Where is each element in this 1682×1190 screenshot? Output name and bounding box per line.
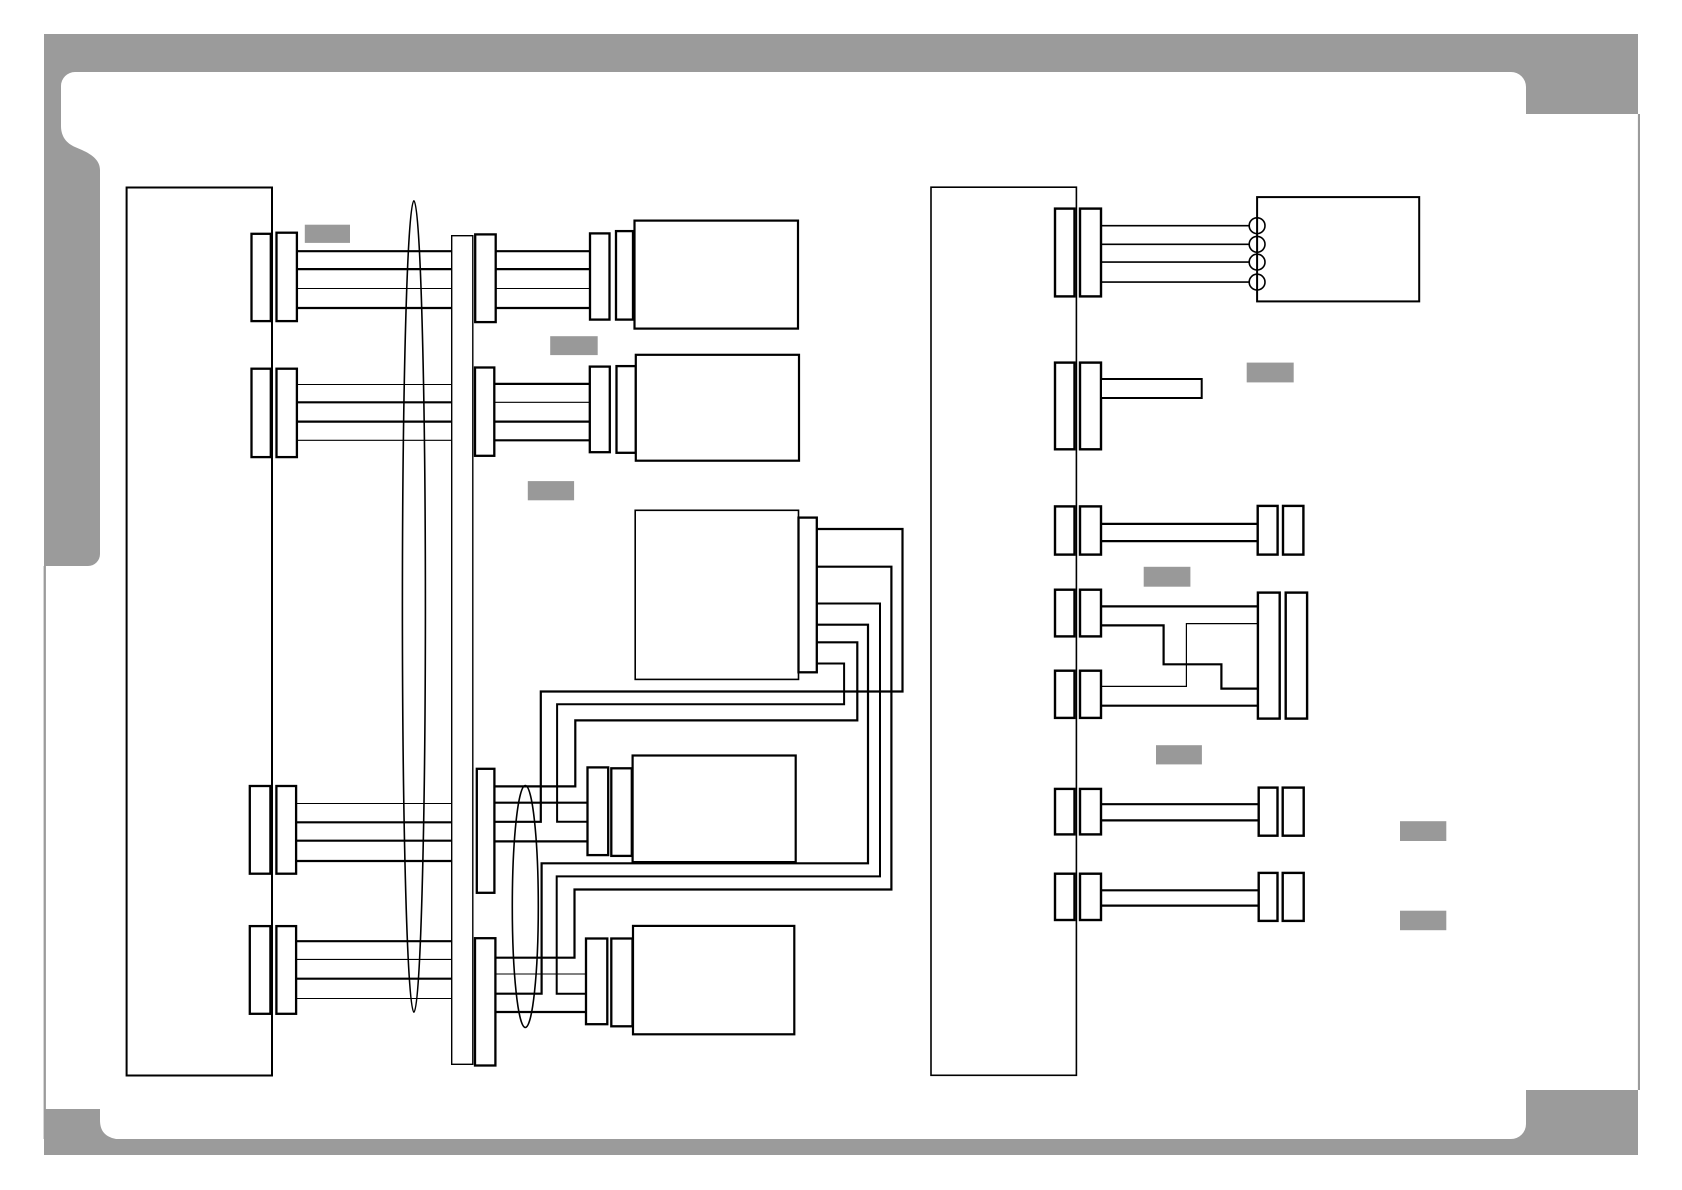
wire Q5-1 staircase up bbox=[1098, 624, 1260, 687]
connector F6 left bbox=[1259, 788, 1278, 836]
connector E3 outer bbox=[1080, 506, 1101, 554]
pin circle Q1-3 bbox=[1249, 254, 1265, 270]
wire P2-4 right bbox=[492, 439, 592, 441]
wire bus to M1 conn pin1 bbox=[492, 802, 589, 804]
wire P3-4 left bbox=[294, 860, 455, 862]
connector F45 left bbox=[1258, 593, 1280, 719]
frame top bar bbox=[44, 34, 1638, 72]
wire P2-1 left bbox=[294, 384, 455, 386]
junction bus bar bbox=[452, 236, 473, 1065]
connector M1 outer bbox=[588, 767, 609, 855]
wire bus to M2 conn pin3 bbox=[493, 1011, 589, 1013]
cable loop ellipse 2 bbox=[512, 786, 538, 1028]
wire P1-3 right bbox=[492, 288, 592, 290]
device box B2 bbox=[636, 355, 799, 461]
wire Q6-2 bbox=[1098, 819, 1260, 821]
connector F45 right bbox=[1286, 593, 1307, 719]
wire Q4-1 bbox=[1098, 605, 1260, 607]
device box B1 bbox=[635, 221, 799, 329]
connector F7 left bbox=[1259, 873, 1278, 921]
frame left thin line bbox=[44, 566, 46, 1139]
wire P1-2 right bbox=[492, 268, 592, 270]
label L5 bbox=[1144, 567, 1191, 587]
bus connector C2 bbox=[475, 368, 494, 456]
wire P3-1 left bbox=[294, 803, 455, 805]
bus connector C4 bbox=[477, 769, 495, 893]
pin circle Q1-1 bbox=[1249, 218, 1265, 234]
wire Q7-2 bbox=[1098, 904, 1260, 906]
wire P1-1 right bbox=[492, 250, 592, 252]
wire Q4-2 staircase down bbox=[1098, 625, 1260, 688]
motor box B5 bbox=[633, 926, 794, 1034]
connector F3 left bbox=[1258, 506, 1278, 555]
connector D1 inner bbox=[616, 231, 633, 320]
frame bottom-right block bbox=[1511, 1090, 1638, 1139]
wire P2-4 left bbox=[294, 439, 455, 441]
wire P1-1 left bbox=[294, 250, 455, 252]
wire P4-4 left bbox=[294, 998, 455, 1000]
wire W1 deck conn to bus bbox=[492, 529, 903, 822]
label L4 bbox=[1247, 363, 1294, 383]
wire P2-2 right bbox=[492, 401, 592, 403]
wire Q3-1 bbox=[1098, 523, 1260, 525]
wire P4-3 left bbox=[294, 978, 455, 980]
main PCB box left bbox=[127, 188, 272, 1076]
label L3 bbox=[528, 481, 574, 500]
bus connector C1 bbox=[475, 234, 496, 322]
wire P2-3 right bbox=[492, 421, 592, 423]
wire Q3-2 bbox=[1098, 540, 1260, 542]
connector CN1 inner bbox=[252, 234, 271, 321]
connector E5 outer bbox=[1080, 671, 1101, 718]
connector E4 outer bbox=[1080, 590, 1101, 637]
frame bottom bar bbox=[44, 1139, 1638, 1155]
wire P3-2 left bbox=[294, 821, 455, 823]
label L6 bbox=[1156, 745, 1202, 764]
wire W5 deck conn to bus bbox=[492, 642, 857, 786]
wire Q5-2 bbox=[1098, 705, 1260, 707]
main PCB box right bbox=[931, 187, 1076, 1075]
connector CN3 inner bbox=[250, 786, 271, 874]
wire P1-4 left bbox=[294, 307, 455, 309]
label L1 bbox=[305, 225, 350, 243]
connector E2 inner bbox=[1055, 363, 1075, 450]
connector E5 inner bbox=[1055, 671, 1075, 718]
connector E6 outer bbox=[1080, 789, 1101, 835]
connector E1 inner bbox=[1055, 209, 1075, 297]
connector E4 inner bbox=[1055, 590, 1075, 637]
wire P4-2 left bbox=[294, 958, 455, 960]
wire P1-4 right bbox=[492, 307, 592, 309]
bus connector C5 bbox=[475, 938, 495, 1065]
connector E7 outer bbox=[1080, 874, 1101, 920]
deck box B3 bbox=[635, 510, 798, 679]
connector CN2 inner bbox=[252, 369, 271, 457]
wire W6 deck conn to M1 conn bbox=[557, 664, 844, 822]
connector M2 inner bbox=[611, 939, 632, 1027]
connector M2 outer bbox=[586, 939, 607, 1025]
deck connector bbox=[799, 518, 817, 673]
motor box B4 bbox=[633, 756, 796, 863]
wire bus to M1 conn pin3 bbox=[492, 840, 589, 842]
wire P2-3 left bbox=[294, 421, 455, 423]
label L2 bbox=[550, 336, 598, 355]
wire Q1-1 bbox=[1098, 225, 1250, 227]
connector CN1 outer bbox=[277, 233, 297, 321]
wire Q6-1 bbox=[1098, 803, 1260, 805]
label L7 bbox=[1400, 821, 1446, 841]
connector E2 outer bbox=[1080, 363, 1101, 450]
wire P1-2 left bbox=[294, 268, 455, 270]
connector M1 inner bbox=[611, 768, 632, 856]
connector CN4 inner bbox=[250, 926, 271, 1014]
flat cable bar Q2 bbox=[1101, 379, 1202, 398]
wire Q1-4 bbox=[1098, 281, 1250, 283]
connector E1 outer bbox=[1080, 209, 1101, 297]
sensor box Q1 bbox=[1257, 197, 1419, 301]
wire W3 deck conn to M2 conn bbox=[557, 604, 880, 994]
connector CN4 outer bbox=[276, 926, 296, 1014]
frame top-right block bbox=[1511, 72, 1638, 114]
connector E7 inner bbox=[1055, 874, 1075, 920]
connector CN2 outer bbox=[277, 369, 297, 457]
connector D1 outer bbox=[590, 233, 610, 319]
connector D2 inner bbox=[617, 366, 636, 453]
connector F6 right bbox=[1283, 788, 1304, 836]
frame bottom-left block bbox=[44, 1109, 116, 1139]
connector CN3 outer bbox=[276, 786, 296, 874]
wire P2-2 left bbox=[294, 401, 455, 403]
wire Q1-3 bbox=[1098, 261, 1250, 263]
wire P3-3 left bbox=[294, 840, 455, 842]
pin circle Q1-4 bbox=[1249, 274, 1265, 290]
wire W2 deck conn to bus bbox=[492, 567, 891, 958]
wire P2-1 right bbox=[492, 383, 592, 385]
wire W4 deck conn to bus bbox=[493, 625, 868, 994]
wire Q1-2 bbox=[1098, 243, 1250, 245]
connector E6 inner bbox=[1055, 789, 1075, 835]
connector D2 outer bbox=[590, 367, 610, 453]
frame left tab bbox=[44, 72, 100, 566]
connector F3 right bbox=[1283, 506, 1303, 555]
wire bus to M2 conn pin1 bbox=[493, 973, 589, 975]
label L8 bbox=[1400, 911, 1446, 931]
pin circle Q1-2 bbox=[1249, 236, 1265, 252]
connector F7 right bbox=[1283, 873, 1304, 921]
connector E3 inner bbox=[1055, 506, 1075, 554]
wire P4-1 left bbox=[294, 940, 455, 942]
wire Q7-1 bbox=[1098, 889, 1260, 891]
wire P1-3 left bbox=[294, 288, 455, 290]
cable loop ellipse 1 bbox=[402, 201, 425, 1012]
frame right thin line bbox=[1638, 114, 1640, 1090]
